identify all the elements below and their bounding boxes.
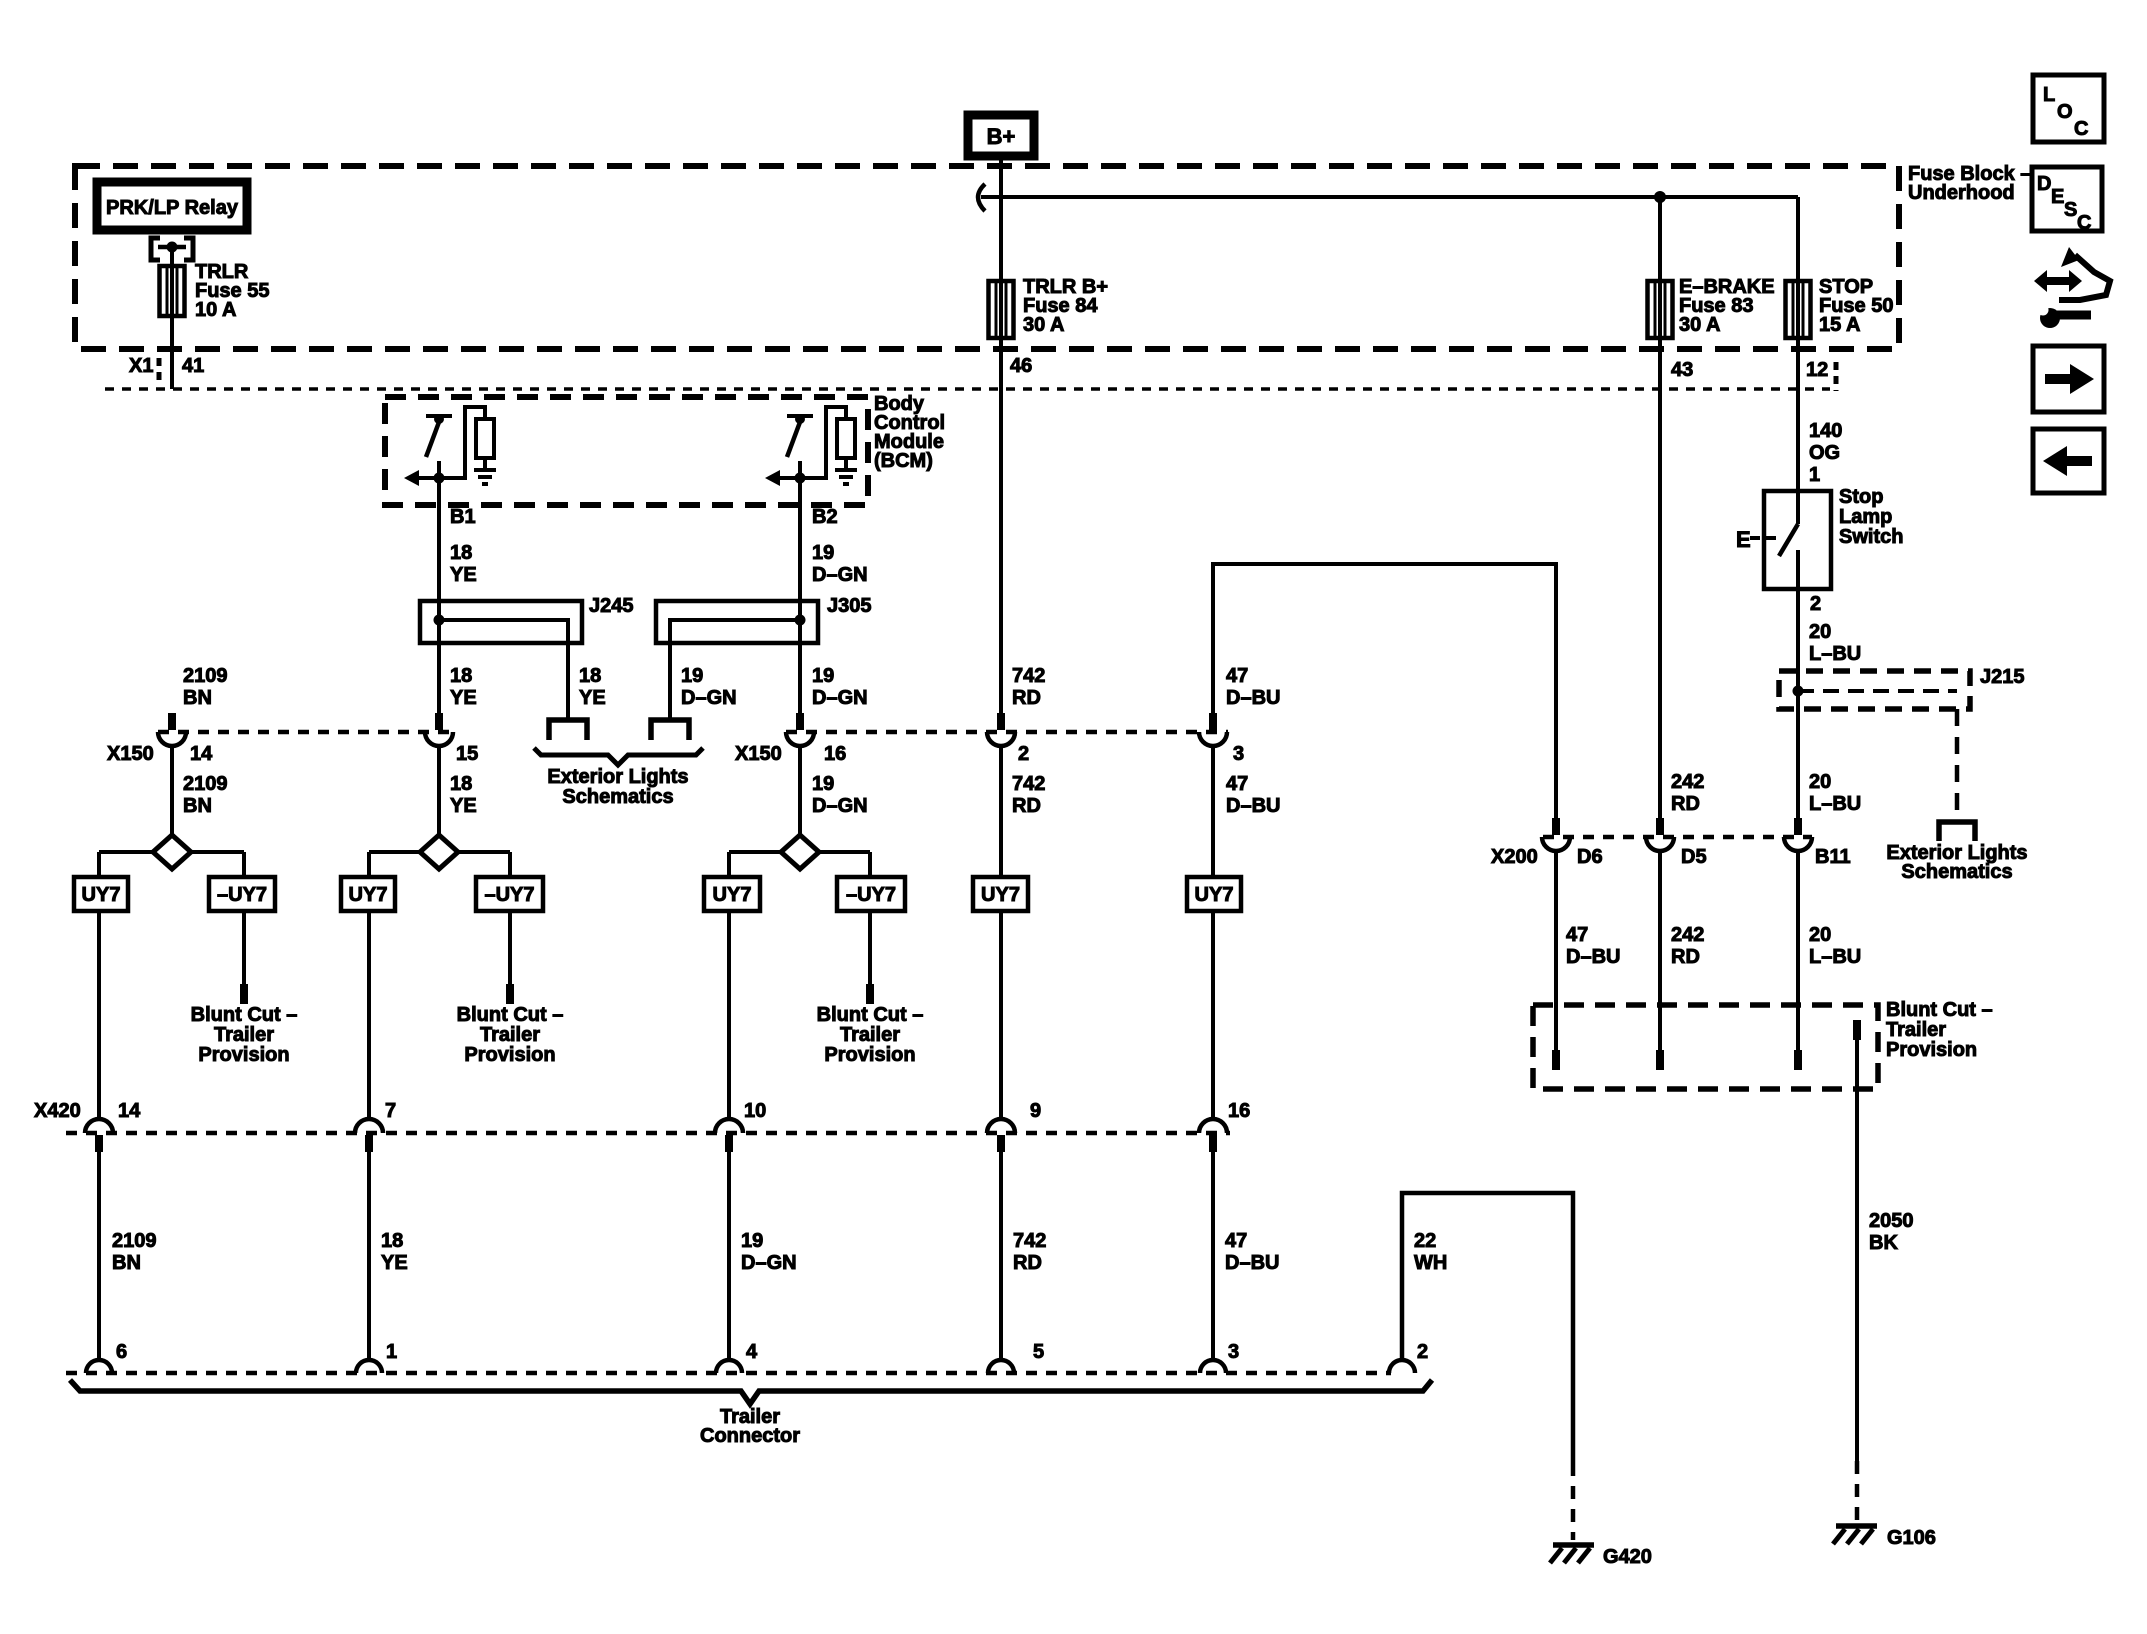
wire - fuse 84 to X150 pin 2 — [999, 338, 1003, 714]
wire - rail corner to fuse 50 — [1796, 197, 1800, 281]
fuse block - underhood (dashed box) — [75, 166, 1899, 349]
wire - X200 B11 to blunt cut — [1796, 851, 1800, 1052]
trailer connector bracket — [70, 1380, 1432, 1404]
wire - fuse 55 to connector X1 pin 41 — [170, 316, 174, 389]
svg-text:2: 2 — [1810, 593, 1821, 615]
svg-text:RD: RD — [1671, 946, 1700, 968]
svg-text:G106: G106 — [1887, 1527, 1936, 1549]
connector X420 pin 7 — [355, 1119, 383, 1133]
svg-text:D5: D5 — [1681, 846, 1707, 868]
wire - blunt cut drop (18 YE) — [508, 911, 512, 986]
svg-text:Provision: Provision — [198, 1044, 289, 1066]
svg-text:Lamp: Lamp — [1839, 506, 1892, 528]
svg-text:3: 3 — [1228, 1341, 1239, 1363]
wire - blunt cut drop (2109 BN) — [242, 911, 246, 986]
svg-text:22: 22 — [1414, 1230, 1436, 1252]
terminal - J215 tap blunt end — [1939, 822, 1975, 841]
connector X150 pin 15 — [435, 713, 443, 730]
svg-text:–UY7: –UY7 — [484, 884, 534, 906]
svg-text:15: 15 — [456, 743, 478, 765]
relay PRK/LP Relay (label box) — [97, 182, 247, 230]
svg-text:S: S — [2064, 199, 2077, 221]
svg-text:L–BU: L–BU — [1809, 946, 1861, 968]
wire - UY7 to X420 pin 7 — [367, 911, 371, 1121]
svg-text:19: 19 — [681, 665, 703, 687]
trailer connector pin 6 — [86, 1360, 112, 1373]
svg-text:B11: B11 — [1815, 846, 1851, 868]
BCM driver output B2 — [787, 414, 813, 418]
svg-text:15 A: 15 A — [1819, 314, 1861, 336]
svg-text:RD: RD — [1671, 793, 1700, 815]
svg-text:D–GN: D–GN — [812, 564, 868, 586]
svg-text:J215: J215 — [1980, 666, 2025, 688]
svg-text:16: 16 — [824, 743, 846, 765]
svg-text:16: 16 — [1228, 1100, 1250, 1122]
connector X420 pin 9 — [987, 1119, 1015, 1133]
option box -UY7 (2109 BN) — [209, 877, 275, 911]
svg-text:14: 14 — [190, 743, 213, 765]
splice diamond (18 YE) — [369, 850, 421, 854]
icon arrow right — [2033, 346, 2104, 412]
svg-text:20: 20 — [1809, 621, 1831, 643]
icon arrow left — [2033, 429, 2104, 493]
connector X150 pin 2 — [997, 713, 1005, 730]
svg-text:G420: G420 — [1603, 1546, 1652, 1568]
wire - B+ feed drop — [999, 156, 1003, 197]
body control module (dashed box) — [385, 397, 868, 505]
wire - UY7 to X420 pin 14 — [97, 911, 101, 1121]
svg-text:YE: YE — [450, 795, 477, 817]
svg-text:Switch: Switch — [1839, 526, 1903, 548]
trailer connector pin 5 — [988, 1360, 1014, 1373]
wire - fuse 83 to X200 pin D5 — [1658, 338, 1662, 821]
trailer connector pin 1 — [356, 1360, 382, 1373]
svg-text:1: 1 — [1809, 464, 1820, 486]
wire - UY7 to X420 pin 10 — [727, 911, 731, 1121]
terminal - J245 tap blunt end — [549, 720, 587, 740]
relay contact (PRK/LP relay output contact) — [151, 238, 160, 260]
svg-text:L–BU: L–BU — [1809, 793, 1861, 815]
svg-text:12: 12 — [1806, 359, 1828, 381]
splice pack J305 — [656, 601, 818, 643]
svg-text:Connector: Connector — [700, 1425, 800, 1447]
svg-text:242: 242 — [1671, 771, 1704, 793]
svg-text:43: 43 — [1671, 359, 1693, 381]
wire - relay contact to fuse 55 — [170, 249, 174, 266]
wire - J245 to X150 pin 15 — [437, 643, 441, 714]
wire - X200 D6 to blunt cut — [1554, 851, 1558, 1052]
wire 22 WH - trailer pin 2 to ground riser — [1402, 1193, 1573, 1463]
svg-text:(BCM): (BCM) — [874, 450, 933, 472]
svg-text:140: 140 — [1809, 420, 1842, 442]
svg-text:41: 41 — [182, 355, 204, 377]
wire - X420 pin 16 to trailer pin 3 — [1211, 1151, 1215, 1362]
svg-text:Provision: Provision — [824, 1044, 915, 1066]
wire - rail to fuse 84 — [999, 197, 1003, 281]
svg-text:BN: BN — [183, 795, 212, 817]
connector X150 pin 14 — [168, 713, 176, 730]
wire - BCM B2 to J305 — [798, 505, 802, 602]
icon harness routing / repair — [2034, 270, 2082, 292]
svg-text:E: E — [1736, 527, 1751, 552]
svg-text:PRK/LP Relay: PRK/LP Relay — [106, 197, 239, 219]
svg-text:1: 1 — [386, 1341, 397, 1363]
svg-text:10 A: 10 A — [195, 299, 237, 321]
svg-text:30 A: 30 A — [1679, 314, 1721, 336]
svg-text:47: 47 — [1225, 1230, 1247, 1252]
svg-text:B2: B2 — [812, 506, 838, 528]
svg-text:Underhood: Underhood — [1908, 182, 2015, 204]
svg-text:30 A: 30 A — [1023, 314, 1065, 336]
svg-text:3: 3 — [1233, 743, 1244, 765]
connector X200 row (dashed) — [1543, 835, 1812, 840]
svg-text:YE: YE — [579, 687, 606, 709]
svg-text:2109: 2109 — [183, 665, 228, 687]
splice diamond (2109 BN) — [99, 850, 154, 854]
svg-text:46: 46 — [1010, 355, 1032, 377]
svg-text:Schematics: Schematics — [1901, 861, 2012, 883]
terminal - 47 D-BU blunt end — [1552, 1050, 1560, 1070]
option box UY7 (47 D-BU) — [1187, 877, 1241, 911]
svg-text:YE: YE — [381, 1252, 408, 1274]
option box UY7 (2109 BN) — [74, 877, 128, 911]
svg-text:19: 19 — [812, 773, 834, 795]
splice diamond (19 D-GN) — [729, 850, 782, 854]
brace - exterior lights schematics — [534, 748, 703, 765]
svg-text:YE: YE — [450, 687, 477, 709]
option box UY7 (742 RD) — [973, 877, 1028, 911]
trailer connector pin 4 — [716, 1360, 742, 1373]
svg-text:UY7: UY7 — [1195, 884, 1234, 906]
wire - J215 tap (dashed to exterior lights) — [1955, 709, 1960, 818]
option box -UY7 (18 YE) — [476, 877, 543, 911]
option box UY7 (18 YE) — [341, 877, 395, 911]
wire - J245 tap to exterior lights — [566, 643, 570, 720]
svg-text:C: C — [2077, 212, 2091, 234]
svg-text:E: E — [2051, 186, 2064, 208]
svg-text:D6: D6 — [1577, 846, 1603, 868]
svg-text:2050: 2050 — [1869, 1210, 1914, 1232]
svg-text:242: 242 — [1671, 924, 1704, 946]
switch - stop lamp switch — [1764, 491, 1831, 589]
svg-text:Trailer: Trailer — [840, 1024, 900, 1046]
svg-text:6: 6 — [116, 1341, 127, 1363]
connector X150 pin 3 — [1209, 713, 1217, 730]
wire - X150 pin 16 to splice — [798, 746, 802, 836]
wire - X150 pin 14 to splice — [170, 746, 174, 836]
wire - B+ rail (horizontal) — [981, 195, 1798, 199]
svg-text:D–BU: D–BU — [1226, 687, 1280, 709]
svg-text:BN: BN — [183, 687, 212, 709]
svg-text:–UY7: –UY7 — [846, 884, 896, 906]
splice pack J245 — [420, 601, 582, 643]
svg-text:D–GN: D–GN — [812, 795, 868, 817]
svg-text:742: 742 — [1013, 1230, 1046, 1252]
svg-text:X150: X150 — [735, 743, 782, 765]
terminal - 2050 BK blunt start — [1853, 1020, 1861, 1040]
wire - 47 D-BU riser corner — [1213, 564, 1556, 821]
svg-text:RD: RD — [1012, 687, 1041, 709]
svg-text:Trailer: Trailer — [214, 1024, 274, 1046]
svg-text:2109: 2109 — [183, 773, 228, 795]
svg-text:L–BU: L–BU — [1809, 643, 1861, 665]
svg-text:18: 18 — [579, 665, 601, 687]
wire - rail to fuse 83 — [1658, 197, 1662, 281]
junction dot - B+ rail to E-BRAKE fuse — [1654, 191, 1666, 203]
terminal - 20 L-BU blunt end — [1794, 1050, 1802, 1070]
icon LOC — [2033, 75, 2104, 142]
wire - X420 pin 7 to trailer pin 1 — [367, 1151, 371, 1362]
blunt cut - trailer provision (dashed box) — [1533, 1005, 1878, 1089]
wire - X150 pin 2 to UY7 — [999, 746, 1003, 878]
connector X1 row (dotted) — [105, 387, 1830, 391]
connector X200 pin D5 — [1656, 818, 1664, 835]
svg-text:2: 2 — [1417, 1341, 1428, 1363]
fuse TRLR Fuse 55 10 A — [160, 266, 185, 316]
wire - J305 to X150 pin 16 — [798, 643, 802, 714]
power feed label B+ — [968, 115, 1034, 156]
fuse STOP Fuse 50 15 A — [1786, 281, 1811, 338]
wire - X200 D5 to blunt cut — [1658, 851, 1662, 1052]
wire - UY7 to X420 pin 16 — [1211, 911, 1215, 1121]
svg-text:D–BU: D–BU — [1226, 795, 1280, 817]
svg-text:10: 10 — [744, 1100, 766, 1122]
svg-text:UY7: UY7 — [82, 884, 121, 906]
svg-text:J305: J305 — [827, 595, 872, 617]
svg-text:Blunt Cut –: Blunt Cut – — [457, 1004, 564, 1026]
wire - X420 pin 14 to trailer pin 6 — [97, 1151, 101, 1362]
svg-text:UY7: UY7 — [713, 884, 752, 906]
svg-text:C: C — [2074, 118, 2088, 140]
wire - J305 tap to exterior lights — [668, 643, 672, 720]
svg-text:J245: J245 — [589, 595, 634, 617]
terminal - J305 tap blunt end — [651, 720, 689, 740]
svg-text:UY7: UY7 — [981, 884, 1020, 906]
svg-text:BK: BK — [1869, 1232, 1898, 1254]
svg-text:RD: RD — [1012, 795, 1041, 817]
svg-text:D–GN: D–GN — [681, 687, 737, 709]
svg-text:18: 18 — [381, 1230, 403, 1252]
svg-text:19: 19 — [812, 542, 834, 564]
svg-text:X150: X150 — [107, 743, 154, 765]
svg-text:9: 9 — [1030, 1100, 1041, 1122]
svg-text:X200: X200 — [1491, 846, 1538, 868]
svg-text:47: 47 — [1226, 665, 1248, 687]
svg-text:–UY7: –UY7 — [217, 884, 267, 906]
svg-text:2: 2 — [1018, 743, 1029, 765]
fuse TRLR B+ Fuse 84 30 A — [989, 281, 1014, 338]
connector X420 pin 10 — [715, 1119, 743, 1133]
connector X200 pin D6 — [1552, 818, 1560, 835]
svg-text:Provision: Provision — [1886, 1039, 1977, 1061]
option box UY7 (19 D-GN) — [704, 877, 760, 911]
ground G420 — [1553, 1542, 1594, 1548]
svg-text:X420: X420 — [34, 1100, 81, 1122]
svg-text:47: 47 — [1226, 773, 1248, 795]
wire - blunt cut drop (19 D-GN) — [868, 911, 872, 986]
option box -UY7 (19 D-GN) — [837, 877, 905, 911]
svg-text:OG: OG — [1809, 442, 1840, 464]
svg-text:Trailer: Trailer — [1886, 1019, 1946, 1041]
wire - X150 pin 3 to UY7 — [1211, 746, 1215, 878]
wire - X420 pin 10 to trailer pin 4 — [727, 1151, 731, 1362]
svg-text:BN: BN — [112, 1252, 141, 1274]
connector X150 row (dashed, right segment) — [786, 730, 1228, 735]
svg-text:D–GN: D–GN — [812, 687, 868, 709]
svg-text:18: 18 — [450, 542, 472, 564]
svg-text:7: 7 — [385, 1100, 396, 1122]
svg-text:742: 742 — [1012, 773, 1045, 795]
svg-text:D–GN: D–GN — [741, 1252, 797, 1274]
svg-text:Stop: Stop — [1839, 486, 1883, 508]
svg-text:19: 19 — [812, 665, 834, 687]
svg-text:O: O — [2057, 101, 2073, 123]
trailer connector pin 2 — [1389, 1360, 1415, 1373]
wire - J215 to X200 pin B11 — [1796, 709, 1800, 821]
svg-text:4: 4 — [746, 1341, 758, 1363]
fuse E-BRAKE Fuse 83 30 A — [1648, 281, 1673, 338]
terminal - 242 RD blunt end — [1656, 1050, 1664, 1070]
ground G106 — [1836, 1523, 1877, 1529]
svg-text:18: 18 — [450, 665, 472, 687]
svg-text:Blunt Cut –: Blunt Cut – — [191, 1004, 298, 1026]
svg-text:D: D — [2037, 173, 2051, 195]
svg-text:47: 47 — [1566, 924, 1588, 946]
svg-text:742: 742 — [1012, 665, 1045, 687]
junction J215 (dashed box) — [1779, 671, 1970, 709]
wire - BCM B1 to J245 — [437, 505, 441, 602]
svg-text:YE: YE — [450, 564, 477, 586]
svg-text:2109: 2109 — [112, 1230, 157, 1252]
svg-text:D–BU: D–BU — [1566, 946, 1620, 968]
connector X420 pin 14 — [85, 1119, 113, 1133]
svg-text:Trailer: Trailer — [480, 1024, 540, 1046]
wire 2050 BK — [1855, 1040, 1859, 1461]
svg-text:19: 19 — [741, 1230, 763, 1252]
wire - fuse 50 to stop lamp switch — [1796, 338, 1800, 491]
svg-text:20: 20 — [1809, 771, 1831, 793]
svg-text:5: 5 — [1033, 1341, 1044, 1363]
connector X150 pin 16 — [796, 713, 804, 730]
svg-text:X1: X1 — [129, 355, 153, 377]
wire - J215 through-path — [1796, 671, 1800, 709]
svg-text:Blunt Cut –: Blunt Cut – — [1886, 999, 1993, 1021]
svg-text:Exterior Lights: Exterior Lights — [547, 766, 688, 788]
connector X420 row (dashed) — [66, 1131, 1230, 1136]
svg-text:RD: RD — [1013, 1252, 1042, 1274]
svg-text:B1: B1 — [450, 506, 476, 528]
svg-text:WH: WH — [1414, 1252, 1447, 1274]
wire - X420 pin 9 to trailer pin 5 — [999, 1151, 1003, 1362]
trailer connector pin 3 — [1200, 1360, 1226, 1373]
svg-text:B+: B+ — [987, 124, 1016, 149]
connector X200 pin B11 — [1794, 818, 1802, 835]
svg-text:Provision: Provision — [464, 1044, 555, 1066]
svg-text:Schematics: Schematics — [562, 786, 673, 808]
wire - dashed drop to G106 — [1855, 1461, 1860, 1521]
connector X150 row (dashed, left segment) — [158, 730, 452, 735]
wire - stop lamp switch to J215 — [1796, 589, 1800, 671]
svg-text:Blunt Cut –: Blunt Cut – — [817, 1004, 924, 1026]
svg-text:20: 20 — [1809, 924, 1831, 946]
icon DESC — [2032, 167, 2102, 231]
wire - X150 pin 15 to splice — [437, 746, 441, 836]
svg-text:L: L — [2043, 84, 2055, 106]
wire - dashed drop to G420 — [1571, 1463, 1576, 1540]
wire - UY7 to X420 pin 9 — [999, 911, 1003, 1121]
trailer connector row (dashed) — [66, 1371, 1391, 1376]
svg-text:18: 18 — [450, 773, 472, 795]
svg-text:D–BU: D–BU — [1225, 1252, 1279, 1274]
svg-text:UY7: UY7 — [349, 884, 388, 906]
connector X420 pin 16 — [1199, 1119, 1227, 1133]
BCM driver output B1 — [426, 414, 452, 418]
svg-text:14: 14 — [118, 1100, 141, 1122]
